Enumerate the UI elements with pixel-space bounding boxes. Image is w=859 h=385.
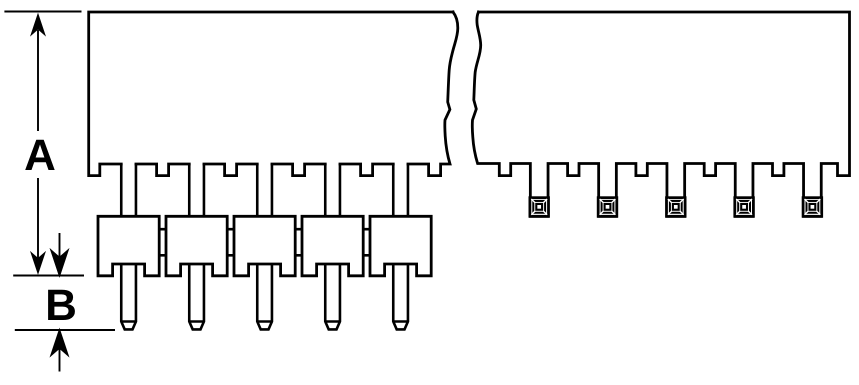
dimension B upper arrow (points down to seating plane) (52, 233, 68, 275)
pin 1 insulator block (98, 216, 159, 275)
pin 5 square post end (SMT pad) (803, 198, 822, 217)
pin 4 square post end (SMT pad) (735, 198, 754, 217)
web between blocks 1-2 (159, 229, 166, 255)
pin 5 upper shank (393, 164, 408, 216)
pin tip extension line (15, 329, 115, 331)
web between blocks 3-4 (295, 229, 302, 255)
pin 2 insulator block (166, 216, 227, 275)
pin 5 insulator block (370, 216, 431, 275)
pin 3 insulator block (234, 216, 295, 275)
pin 4 upper shank (325, 164, 340, 216)
pin 2 upper shank (189, 164, 204, 216)
pin 2 square post end (SMT pad) (598, 198, 617, 217)
pin 3 upper shank (257, 164, 272, 216)
pin 3 square post end (SMT pad) (667, 198, 686, 217)
header housing left (through-hole side view) (89, 12, 458, 176)
pin 1 lower tail with chamfered tip (121, 264, 136, 329)
dimension B lower arrow (points up to pin tip line) (52, 331, 68, 372)
seating plane extension line (13, 275, 84, 277)
header housing right (SMT version) (472, 12, 849, 216)
pin 1 square post end (SMT pad) (530, 198, 549, 217)
dimension A arrowhead down (30, 251, 46, 275)
label B (48, 290, 75, 320)
dimension A arrowhead up (30, 13, 46, 37)
label A (25, 140, 55, 170)
pin 4 insulator block (302, 216, 363, 275)
dimension A leader line (37, 30, 39, 258)
dimension A extension line (top) (4, 11, 81, 13)
pin 3 lower tail with chamfered tip (257, 264, 272, 329)
pin 1 upper shank (121, 164, 136, 216)
web between blocks 2-3 (227, 229, 234, 255)
pin 4 lower tail with chamfered tip (325, 264, 340, 329)
pin 5 lower tail with chamfered tip (393, 264, 408, 329)
web between blocks 4-5 (363, 229, 370, 255)
pin 2 lower tail with chamfered tip (189, 264, 204, 329)
